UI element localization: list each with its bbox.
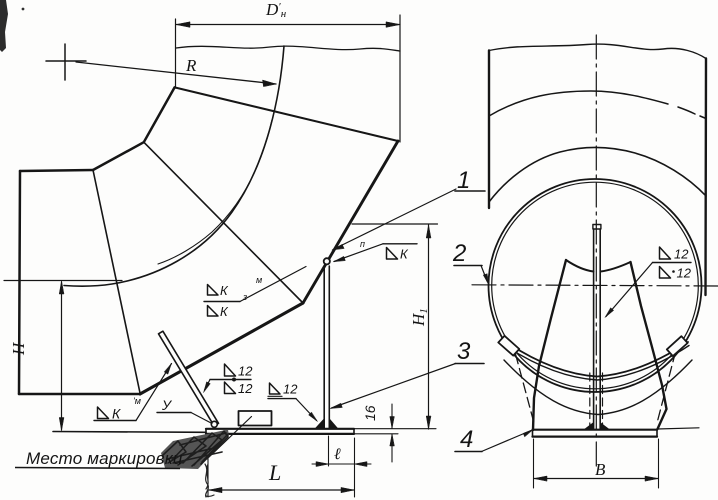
saddle top concave edge left xyxy=(566,260,594,272)
hidden dashed slant right xyxy=(657,352,676,423)
item 3 leader with arrow xyxy=(332,364,456,409)
dimension L line xyxy=(209,489,354,491)
weld symbol d12 strut leader with arrow xyxy=(205,380,211,391)
radius R line xyxy=(76,62,276,84)
svg-text:12: 12 xyxy=(238,381,253,396)
right view base extension line xyxy=(657,428,699,429)
bend axis arc double stroke xyxy=(158,120,272,264)
hidden dashed vertical right xyxy=(602,373,604,428)
weld symbol d12 underline xyxy=(268,395,282,397)
svg-text:ℓ: ℓ xyxy=(334,446,341,463)
weld symbol d12 strut triangle 2 xyxy=(225,382,236,394)
dimension l line xyxy=(312,463,371,465)
dimension H line xyxy=(61,282,63,430)
item 2 leader with arrow xyxy=(481,266,488,283)
right view gusset right xyxy=(600,423,609,430)
center rib left edge xyxy=(593,229,595,429)
item 3 underline xyxy=(455,363,484,365)
item 4 underline xyxy=(455,451,482,453)
weld symbol d12 strut dot xyxy=(232,378,236,382)
post bottom gusset right xyxy=(329,419,337,429)
item 1 underline xyxy=(455,190,485,192)
dimension Dn extension line left xyxy=(175,19,177,88)
dimension B arrows xyxy=(534,476,658,481)
marking plate rectangle xyxy=(239,411,272,426)
svg-text:4: 4 xyxy=(460,426,473,453)
weld seam 2 xyxy=(144,142,303,303)
weld symbol dK lower-left flag line xyxy=(94,420,136,422)
gore 2 inner edge xyxy=(93,142,144,170)
cradle band upper edge line 2 xyxy=(505,346,689,381)
svg-text:'м: 'м xyxy=(133,396,141,406)
radius R arrowhead xyxy=(263,80,277,87)
svg-text:3: 3 xyxy=(457,338,471,365)
gore 3 inner edge xyxy=(144,87,175,142)
gore 1 outer edge xyxy=(19,393,140,396)
right view seam arc 2 xyxy=(489,147,706,202)
right view pipe right edge xyxy=(704,59,707,296)
svg-text:Н: Н xyxy=(9,341,28,356)
cradle band right end tab xyxy=(667,336,688,356)
svg-text:16: 16 xyxy=(362,405,378,421)
svg-text:К: К xyxy=(220,283,229,298)
dimension H1 extension line bottom xyxy=(354,428,436,430)
weld symbol d12 strut triangle 1 xyxy=(225,364,236,376)
dimension l extension lines xyxy=(329,436,355,497)
weld symbol dK pair leader xyxy=(240,267,306,302)
item 2 underline xyxy=(454,265,482,267)
dimension B extension lines xyxy=(534,439,659,488)
weld symbol dK pair flag line xyxy=(204,301,240,303)
right view seam arc 1 xyxy=(489,91,668,116)
svg-text:п: п xyxy=(360,239,365,249)
cradle band lower edge xyxy=(504,360,692,415)
base plate end caps xyxy=(206,429,354,434)
radius center cross xyxy=(46,44,86,80)
vertical centerline dash-dot xyxy=(595,35,597,466)
right view base plate top line xyxy=(533,429,658,431)
end face inner circle xyxy=(492,182,699,389)
saddle left side xyxy=(533,260,566,430)
base plate top line xyxy=(206,428,354,430)
weld symbol d12 right view leader with arrow xyxy=(606,263,653,317)
weld symbol d12 right view triangle 2 xyxy=(660,267,671,279)
weld symbol d12 flag line xyxy=(268,398,296,400)
dimension L extension line left xyxy=(207,436,209,497)
svg-text:L: L xyxy=(268,460,281,485)
weld seam 1 xyxy=(93,170,140,393)
dimension 16 lower line and arrow xyxy=(391,434,393,462)
right view base plate bottom line xyxy=(533,436,658,438)
svg-text:12: 12 xyxy=(674,247,689,262)
weld symbol d12 right view dot xyxy=(672,270,675,273)
dimension 16 upper line and arrow xyxy=(391,404,393,428)
weld symbol U flag line xyxy=(157,412,191,414)
svg-text:2: 2 xyxy=(452,240,466,267)
svg-text:К: К xyxy=(112,406,121,422)
weld symbol dK upper single triangle xyxy=(387,248,398,260)
gore 3 outer edge xyxy=(303,141,398,303)
right view seam arc 1 dashes xyxy=(678,107,706,119)
horizontal centerline dash-dot xyxy=(472,285,718,286)
corner smudge top-left xyxy=(0,0,8,52)
svg-text:В: В xyxy=(595,460,606,479)
dimension B line xyxy=(534,478,658,480)
svg-text:12: 12 xyxy=(283,382,298,397)
svg-text:Место маркировки: Место маркировки xyxy=(26,449,183,468)
item 1 leader with arrow xyxy=(333,189,456,250)
dimension H1 line xyxy=(428,225,430,429)
center rib right edge xyxy=(599,229,601,429)
gore 2 outer edge xyxy=(140,303,303,394)
leader from marking text to plate xyxy=(207,417,252,460)
weld symbol dK lower-left triangle xyxy=(98,407,109,419)
dimension Dn line xyxy=(176,24,400,26)
weld symbol dK pair mid triangle 1 xyxy=(208,285,219,296)
inclined strut xyxy=(159,331,219,426)
weld symbol dK pair triangle 2 xyxy=(208,306,219,317)
right view break line wavy xyxy=(489,44,706,58)
dimension Dn extension line right xyxy=(399,15,401,142)
support post right line xyxy=(328,266,330,429)
center rib top cap xyxy=(593,225,601,230)
base plate bottom line xyxy=(206,433,354,435)
dimension H arrows xyxy=(59,281,64,431)
right view base plate end caps xyxy=(533,430,658,437)
saddle right side xyxy=(631,262,667,429)
weld symbol d12 right view flag line xyxy=(653,262,692,264)
strut foot circle xyxy=(211,421,217,427)
weld symbol dK upper leader with arrow xyxy=(334,244,383,262)
break line wavy left view xyxy=(176,46,400,51)
svg-text:з: з xyxy=(242,292,247,302)
svg-text:м: м xyxy=(256,275,262,285)
dimension Dn arrows xyxy=(176,22,400,27)
scribble hatch blob xyxy=(161,430,229,470)
item 4 leader with arrow xyxy=(482,431,532,452)
pipe bend left end face xyxy=(19,171,20,394)
weld symbol dK upper flag line xyxy=(383,243,417,245)
weld symbol dK lower-left leader with arrow xyxy=(136,364,172,421)
right view pipe left edge xyxy=(488,51,490,209)
stray dot top-left xyxy=(22,8,25,11)
end face outer circle xyxy=(489,179,702,392)
svg-text:12: 12 xyxy=(677,266,692,281)
cradle band left end tab xyxy=(498,336,519,356)
gore 1 inner edge xyxy=(20,170,93,171)
hidden dashed vertical left xyxy=(589,373,591,428)
dimension H extension line xyxy=(4,280,122,282)
svg-text:К: К xyxy=(400,247,409,262)
svg-text:R: R xyxy=(185,56,197,75)
dimension 16 bottom extension xyxy=(354,433,398,435)
weld seam 3 xyxy=(175,87,398,141)
saddle top concave edge right xyxy=(601,262,631,272)
svg-text:1: 1 xyxy=(457,167,470,194)
floor line xyxy=(53,431,206,434)
weld symbol d12 strut flag line xyxy=(210,379,251,381)
svg-text:К: К xyxy=(220,304,229,319)
dimension H1 extension line top xyxy=(352,223,438,225)
bend axis arc xyxy=(64,46,284,286)
marking place underline xyxy=(15,468,180,469)
dimension H1 arrows xyxy=(426,225,431,429)
right view gusset left xyxy=(585,423,594,430)
weld symbol d12 right view triangle 1 xyxy=(660,247,671,259)
scribble hatch tail xyxy=(205,464,214,497)
weld symbol d12 leader with arrow xyxy=(296,399,317,421)
weld symbol U leader xyxy=(191,413,212,424)
weld symbol d12 underlined triangle xyxy=(270,383,281,394)
hidden dashed slant left xyxy=(516,354,535,423)
post top eye circle xyxy=(324,258,330,264)
dimension L arrows xyxy=(209,487,354,492)
post bottom gusset left xyxy=(316,419,325,429)
cradle band upper edge line 1 xyxy=(506,342,688,377)
dimension l arrows xyxy=(316,462,367,467)
svg-text:12: 12 xyxy=(238,364,253,379)
support post left line xyxy=(323,266,325,429)
